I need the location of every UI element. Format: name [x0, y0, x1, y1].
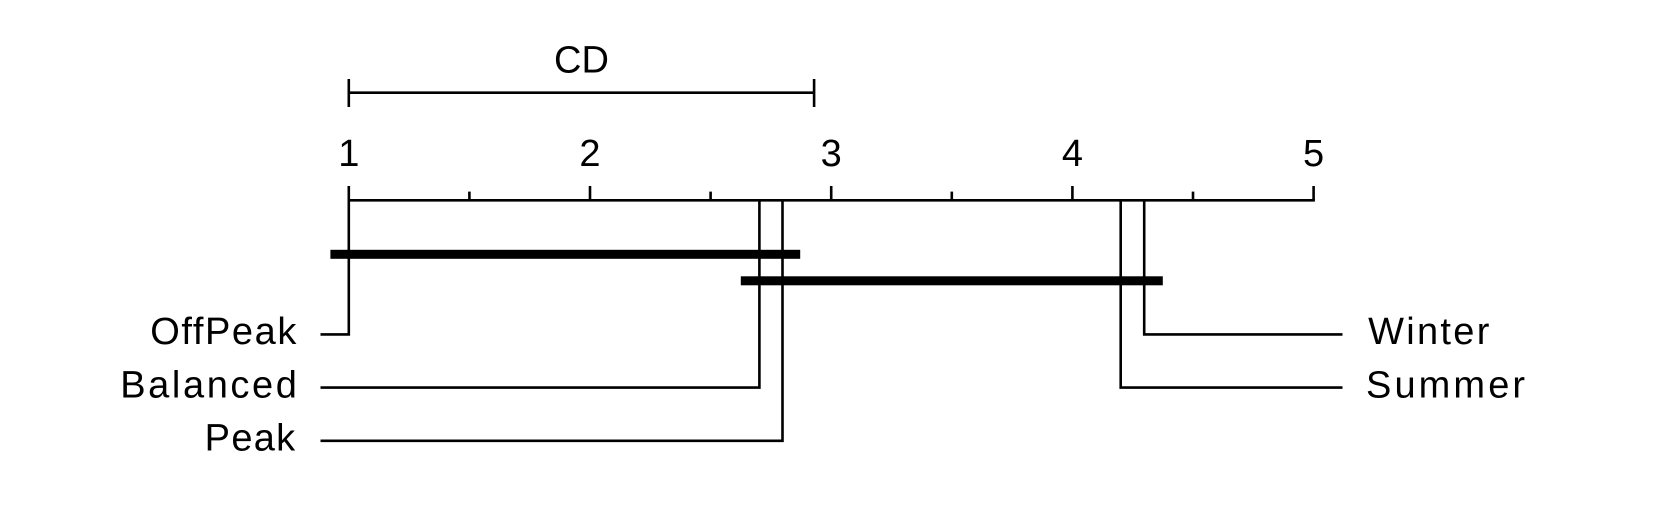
svg-text:Summer: Summer	[1366, 364, 1528, 406]
Winter connector wire	[1144, 200, 1342, 334]
major tick 4	[1071, 186, 1074, 200]
clique bar 2	[741, 276, 1163, 285]
CD interval right serif	[813, 79, 816, 107]
clique bar 1	[330, 250, 800, 259]
minor tick 4.5	[1192, 192, 1195, 201]
svg-text:Winter: Winter	[1368, 311, 1492, 353]
major tick 5	[1312, 186, 1315, 200]
minor tick 1.5	[468, 192, 471, 201]
CD interval left serif	[347, 79, 350, 107]
svg-text:OffPeak: OffPeak	[150, 311, 298, 353]
CD interval line	[349, 91, 814, 94]
major tick 3	[830, 186, 833, 200]
major tick 2	[589, 186, 592, 200]
major tick 1	[347, 186, 350, 200]
svg-text:CD: CD	[554, 39, 609, 81]
minor tick 3.5	[950, 192, 953, 201]
svg-text:3: 3	[821, 133, 842, 175]
Peak connector wire	[321, 200, 783, 440]
svg-text:1: 1	[338, 133, 359, 175]
axis line	[348, 199, 1315, 202]
minor tick 2.5	[709, 192, 712, 201]
svg-text:4: 4	[1062, 133, 1083, 175]
Balanced connector wire	[321, 200, 760, 387]
svg-text:Balanced: Balanced	[120, 364, 299, 406]
OffPeak connector wire	[321, 200, 349, 334]
svg-text:Peak: Peak	[205, 418, 297, 460]
svg-text:2: 2	[579, 133, 600, 175]
Summer connector wire	[1121, 200, 1343, 387]
svg-text:5: 5	[1303, 133, 1324, 175]
